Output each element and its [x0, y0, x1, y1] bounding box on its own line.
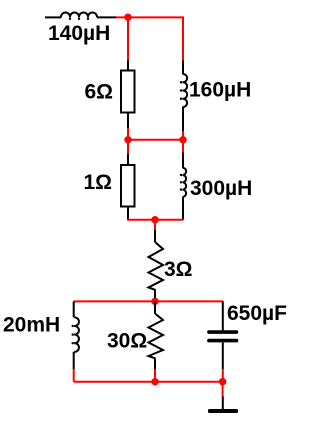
wire 6ohm top lead: [127, 61, 129, 71]
wire top node down left branch: [127, 17, 129, 60]
inductor 160uH: [183, 74, 188, 107]
resistor 30ohm bottom lead: [154, 359, 156, 370]
resistor 3ohm zigzag: [149, 243, 164, 291]
capacitor 650uF bottom lead: [222, 342, 224, 369]
inductor 160uH bottom lead: [182, 107, 184, 131]
resistor 3ohm top lead: [154, 230, 156, 243]
inductor 140uH: [61, 12, 116, 20]
wire 20mH bottom corner: [73, 369, 75, 382]
wire 30ohm to bottom rail: [154, 369, 156, 382]
capacitor 650uF top lead: [222, 301, 224, 330]
svg-text:30Ω: 30Ω: [107, 329, 147, 352]
resistor 1ohm body: [121, 165, 135, 207]
resistor 6ohm body: [121, 71, 135, 113]
junction node bottom rail mid: [151, 378, 158, 385]
wire below mid-right node: [182, 140, 184, 153]
junction node mid rail 2: [151, 216, 158, 223]
ground: [208, 409, 238, 413]
resistor 3ohm bottom lead: [154, 290, 156, 301]
inductor 300uH: [183, 168, 187, 197]
wire to ground: [222, 382, 224, 397]
wire mid rail 1: [128, 139, 183, 141]
wire left into mid rail: [127, 128, 129, 140]
junction node top rail: [151, 298, 158, 305]
resistor 30ohm top lead: [154, 301, 156, 314]
inductor 20mH: [74, 317, 79, 351]
junction node bottom rail right: [219, 378, 226, 385]
svg-text:650µF: 650µF: [227, 302, 287, 325]
wire mid rail 2: [127, 219, 184, 221]
wire right into mid rail: [182, 131, 184, 140]
inductor 160uH top lead: [182, 61, 184, 75]
inductor 300uH top lead: [182, 153, 184, 168]
wire bottom rail: [74, 381, 223, 383]
wire below mid rail 2: [154, 220, 156, 230]
inductor 20mH bottom lead: [73, 352, 75, 369]
svg-text:1Ω: 1Ω: [84, 171, 113, 194]
ground lead: [222, 397, 224, 410]
svg-text:140µH: 140µH: [48, 22, 110, 45]
wire 1ohm bottom lead: [127, 207, 129, 220]
svg-text:160µH: 160µH: [189, 79, 251, 102]
junction node top: [124, 14, 131, 21]
capacitor 650uF bottom plate: [207, 339, 238, 343]
svg-text:3Ω: 3Ω: [164, 258, 193, 281]
svg-text:20mH: 20mH: [3, 314, 60, 337]
inductor 300uH bottom lead: [182, 197, 184, 220]
svg-text:300µH: 300µH: [190, 177, 252, 200]
wire top node to right branch: [116, 17, 183, 60]
wire 6ohm bottom lead: [127, 113, 129, 129]
svg-text:6Ω: 6Ω: [85, 80, 114, 103]
resistor 30ohm zigzag: [149, 314, 164, 359]
wire bottom section top rail: [74, 300, 224, 302]
capacitor 650uF top plate: [207, 330, 238, 334]
wire 1ohm top lead: [127, 154, 129, 165]
wire top-left lead-in: [45, 16, 61, 18]
junction node mid-right: [179, 136, 186, 143]
junction node mid-left: [124, 136, 131, 143]
inductor 20mH top lead: [73, 301, 75, 317]
wire capacitor to bottom rail: [222, 369, 224, 382]
wire below mid-left node: [127, 140, 129, 154]
